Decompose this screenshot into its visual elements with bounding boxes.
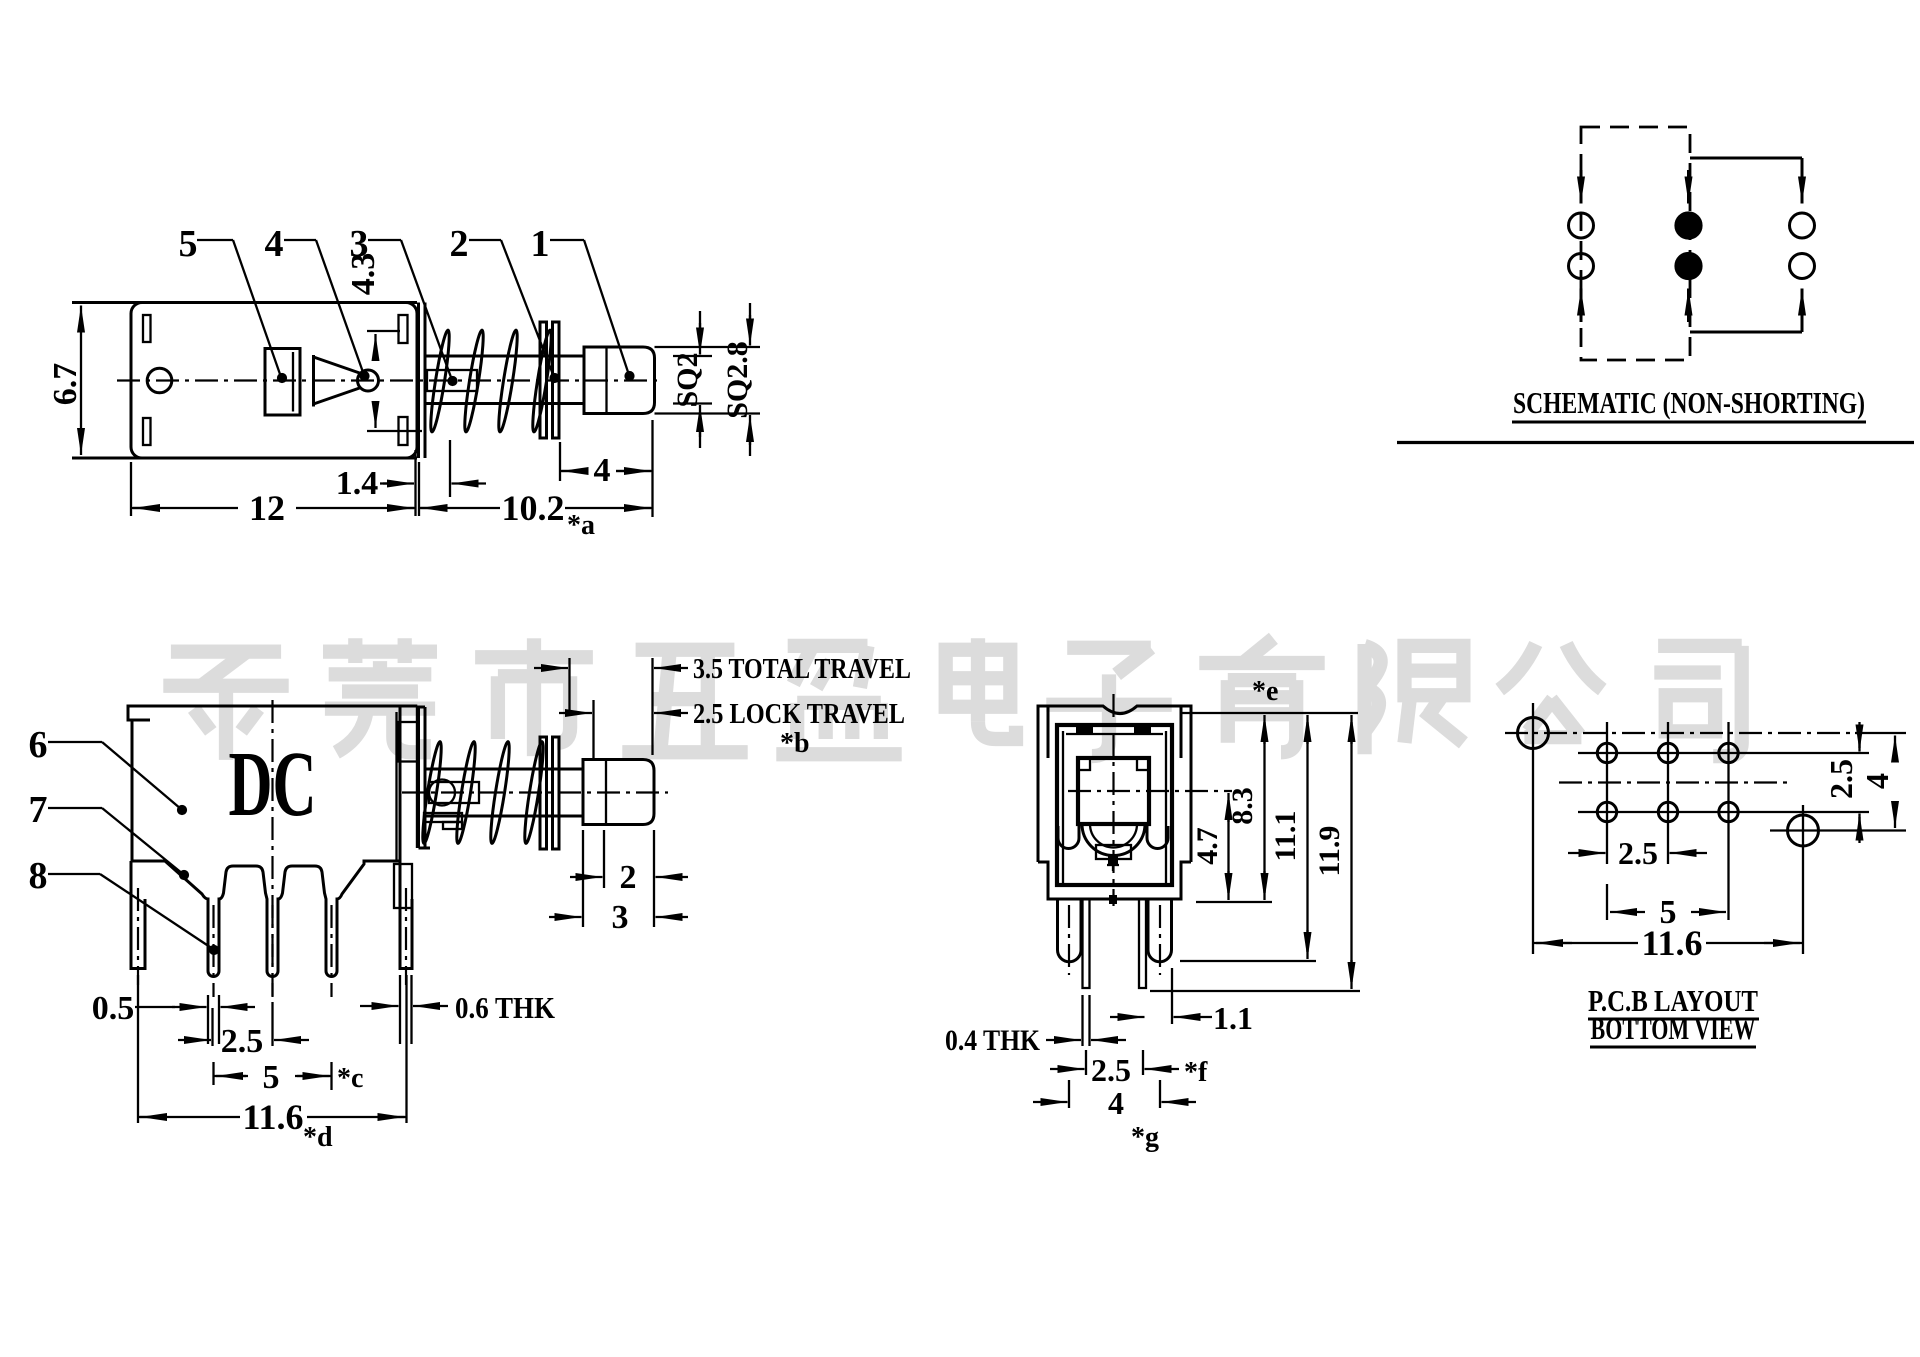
pcb row2 holes	[1597, 802, 1616, 821]
svg-text:0.6 THK: 0.6 THK	[455, 990, 555, 1025]
plunger shaft lines	[425, 355, 584, 358]
cone latch (part 4)	[314, 355, 362, 407]
dimension 11.9	[1350, 722, 1352, 982]
body corner notch top-left	[143, 315, 151, 342]
pin centerlines	[212, 905, 214, 997]
svg-text:2.5: 2.5	[221, 1023, 264, 1060]
dimension 2 (knob)	[603, 830, 605, 888]
rear view right pin	[1148, 899, 1172, 962]
dimension 2.5 *f	[1085, 1050, 1087, 1075]
svg-text:1: 1	[531, 223, 550, 265]
pcb hole verticals	[1606, 722, 1608, 864]
schematic terminals filled center	[1676, 213, 1702, 239]
svg-text:2.5: 2.5	[1618, 835, 1658, 871]
pcb mid dash centerline	[1559, 781, 1793, 783]
dimension 12	[130, 462, 132, 516]
dimension 8.3	[1263, 722, 1265, 893]
mounting plate	[417, 303, 420, 459]
dimension 1.1	[1171, 968, 1173, 1024]
svg-text:4: 4	[594, 452, 611, 489]
svg-text:4: 4	[1108, 1085, 1124, 1121]
svg-text:4: 4	[265, 223, 284, 265]
svg-text:1.4: 1.4	[336, 465, 379, 502]
dimension 4 *g	[1068, 1080, 1070, 1108]
dimension 0.4 THK	[1081, 995, 1083, 1046]
dimension 4.3	[367, 330, 400, 332]
rear view: body outline	[1038, 706, 1191, 899]
side view 2: inner rod	[429, 782, 479, 803]
dimension 5 *c	[212, 1062, 214, 1085]
svg-text:BOTTOM VIEW: BOTTOM VIEW	[1591, 1011, 1756, 1046]
svg-text:4.7: 4.7	[1191, 827, 1224, 865]
pcb dimension 5	[1606, 884, 1608, 920]
pcb row2 line	[1578, 811, 1869, 813]
washer flange (part 2 target)	[540, 322, 547, 438]
separator line	[1397, 441, 1914, 444]
latch lobes	[1058, 826, 1168, 849]
front view: body outline	[128, 706, 417, 861]
svg-text:*d: *d	[303, 1122, 333, 1153]
dimension 0.6 THK	[399, 975, 401, 1044]
pcb row1 holes	[1597, 743, 1616, 762]
svg-text:11.6: 11.6	[1641, 923, 1702, 963]
svg-text:0.5: 0.5	[92, 990, 135, 1027]
rear extension lines	[1181, 712, 1358, 714]
svg-text:*e: *e	[1252, 676, 1278, 707]
svg-text:*f: *f	[1184, 1057, 1208, 1088]
front view bottom tooth profile and pins	[165, 861, 400, 977]
svg-text:12: 12	[249, 488, 285, 528]
side view 2: plunger shaft lines	[425, 768, 583, 771]
svg-text:7: 7	[29, 789, 48, 831]
svg-text:SQ2.8: SQ2.8	[721, 341, 754, 419]
rear view pin centerlines	[1068, 905, 1070, 975]
pcb dimension 2.5 vertical	[1858, 722, 1860, 748]
plate bracket tab upper	[398, 722, 418, 762]
pcb hole large left	[1518, 718, 1549, 749]
schematic contact arrows	[1580, 170, 1583, 204]
svg-text:1.1: 1.1	[1213, 1000, 1253, 1036]
rear view inner frame	[1057, 725, 1172, 885]
rear view centerlines	[1112, 694, 1114, 906]
schematic: dashed pole frame	[1581, 127, 1690, 360]
pcb dimension 4 vertical	[1855, 732, 1906, 734]
svg-text:*c: *c	[337, 1063, 363, 1094]
pivot hole	[147, 368, 172, 393]
pcb hole large right	[1788, 815, 1819, 846]
svg-text:8.3: 8.3	[1226, 787, 1259, 825]
svg-text:0.4 THK: 0.4 THK	[945, 1024, 1041, 1057]
svg-text:*b: *b	[780, 728, 810, 759]
dimension 1.4	[449, 440, 451, 497]
side view 2: mounting plate	[417, 707, 420, 848]
svg-text:SCHEMATIC (NON-SHORTING): SCHEMATIC (NON-SHORTING)	[1513, 385, 1865, 420]
dimension 10.2 *a	[418, 462, 420, 516]
rear view plunger	[1078, 758, 1149, 824]
body corner notch top-right	[399, 315, 408, 343]
dimension 6.7	[80, 306, 82, 331]
side view 2: coil spring	[419, 741, 444, 844]
center line	[117, 379, 661, 381]
pcb dimension 11.6	[1533, 942, 1638, 944]
dimension 3.5 TOTAL TRAVEL	[568, 658, 570, 716]
dimension 4 (knob)	[559, 442, 561, 481]
svg-text:3: 3	[612, 899, 629, 936]
pcb dimension 2.5 horizontal	[1568, 852, 1606, 854]
rear view top tabs	[1076, 723, 1093, 735]
side view: switch body outline	[72, 301, 417, 304]
watermark: company name (decorative)	[163, 638, 1741, 760]
svg-text:6.7: 6.7	[47, 363, 84, 406]
svg-text:3.5 TOTAL TRAVEL: 3.5 TOTAL TRAVEL	[693, 653, 911, 685]
schematic: solid pole frame	[1690, 158, 1802, 332]
svg-text:5: 5	[263, 1059, 280, 1096]
dimension 0.5	[207, 995, 209, 1044]
front view left leg	[131, 861, 145, 969]
body corner notch bottom-right	[399, 417, 408, 445]
svg-text:SQ2: SQ2	[671, 352, 704, 407]
leg centerlines	[137, 888, 139, 985]
svg-text:10.2: 10.2	[502, 488, 565, 528]
dimension 11.1	[1306, 722, 1308, 952]
svg-text:2: 2	[620, 859, 637, 896]
rear view thin pins	[1083, 899, 1147, 988]
dimension SQ2	[673, 355, 712, 357]
svg-text:11.1: 11.1	[1269, 811, 1302, 862]
pcb row1 line	[1578, 752, 1869, 754]
side view 2: centerline	[402, 791, 668, 793]
schematic terminals open left	[1569, 213, 1594, 238]
svg-text:2.5: 2.5	[1091, 1052, 1131, 1088]
svg-text:4: 4	[1859, 773, 1895, 789]
side view 2: latch pin circle	[429, 780, 455, 806]
plate bracket tab lower	[394, 864, 412, 908]
rear view ears	[1047, 706, 1050, 758]
svg-text:*g: *g	[1131, 1122, 1159, 1153]
svg-text:8: 8	[29, 855, 48, 897]
keyway block (part 5)	[265, 349, 300, 416]
body corner notch bottom-left	[143, 418, 151, 445]
dimension 3	[582, 830, 584, 927]
svg-text:6: 6	[29, 724, 48, 766]
svg-text:11.6: 11.6	[242, 1097, 303, 1137]
dimension SQ2.8	[655, 346, 761, 348]
front view right leg	[400, 861, 412, 969]
svg-text:2.5 LOCK TRAVEL: 2.5 LOCK TRAVEL	[693, 698, 905, 730]
coil spring	[427, 329, 452, 432]
rear view left pin	[1058, 899, 1082, 962]
svg-text:4.3: 4.3	[345, 253, 382, 296]
svg-text:5: 5	[179, 223, 198, 265]
dimension 11.6 *d	[137, 975, 139, 1123]
dimension 4.7	[1227, 800, 1229, 893]
side view 2: push knob	[583, 760, 654, 825]
front view right plate lines	[395, 712, 397, 861]
inner rod (part 3 target)	[427, 370, 477, 391]
front view vertical centerline	[271, 700, 273, 997]
svg-text:2: 2	[450, 223, 469, 265]
dimension 2.5 (pins)	[211, 1008, 213, 1046]
rear view lower detail	[1096, 845, 1131, 859]
dimension 2.5 LOCK TRAVEL *b	[559, 712, 592, 714]
rear view spring arcs	[1082, 824, 1145, 856]
side view 2: washer flange	[540, 737, 547, 849]
schematic terminals open right	[1790, 213, 1815, 238]
side view 2: latch detail	[424, 813, 462, 822]
push knob (part 1 target)	[584, 347, 655, 414]
pcb main centerline	[1505, 732, 1862, 734]
svg-text:11.9: 11.9	[1313, 826, 1346, 877]
svg-text:2.5: 2.5	[1823, 759, 1859, 799]
svg-text:*a: *a	[567, 510, 595, 541]
